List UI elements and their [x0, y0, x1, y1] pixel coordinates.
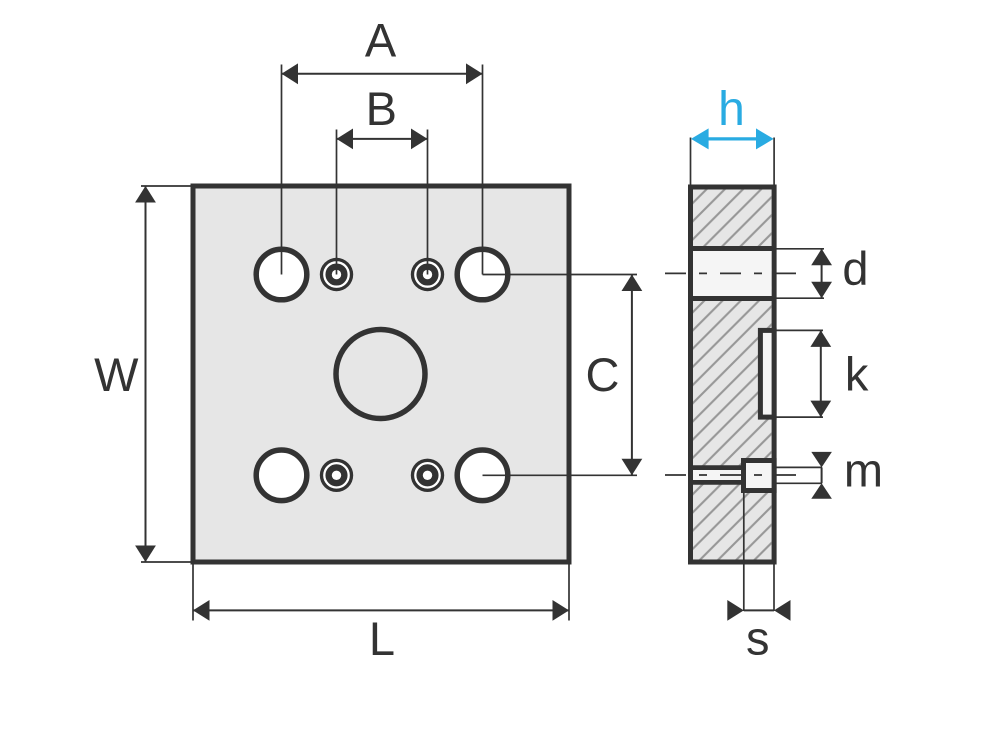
svg-text:k: k [845, 348, 869, 401]
svg-text:W: W [94, 348, 139, 401]
hole bottom-left large [256, 450, 307, 501]
hole top-left small [320, 258, 353, 291]
label m [844, 444, 883, 497]
label s [746, 612, 770, 665]
svg-text:s: s [746, 612, 770, 665]
svg-text:d: d [842, 242, 868, 295]
label k [845, 348, 869, 401]
dimension W extension line bottom [141, 561, 195, 563]
svg-text:C: C [586, 348, 620, 401]
dimension A extension line left [281, 65, 283, 275]
svg-text:h: h [718, 83, 745, 136]
dimension k extension line top [776, 329, 823, 331]
dimension s extension line left [743, 493, 745, 611]
dimension B extension line right [427, 130, 429, 275]
dimension B extension line left [336, 130, 338, 275]
dimension h extension line left [690, 138, 692, 187]
dimension m connector and arrows [811, 452, 832, 499]
centerline of bore band [665, 272, 800, 274]
dimension s extension line right [773, 565, 775, 612]
dimension m extension line bottom [776, 482, 822, 484]
dimension A extension line right [482, 65, 484, 275]
side view body [691, 187, 775, 562]
center bore circle [336, 330, 425, 419]
dimension C line [622, 275, 643, 476]
hole bottom-left small [320, 459, 353, 492]
leader line from bottom-right hole to C [483, 474, 638, 476]
dimension k extension line bottom [776, 416, 823, 418]
svg-text:B: B [366, 82, 397, 135]
hole top-left large [256, 249, 307, 300]
label h [718, 83, 745, 136]
hole bottom-right large [457, 450, 508, 501]
dimension L extension line left [192, 565, 194, 621]
dimension A line [282, 63, 483, 84]
leader line into top-right small hole [427, 258, 429, 275]
front view plate [193, 186, 569, 562]
label L [369, 612, 395, 665]
leader line from top-right hole to C [483, 274, 638, 276]
leader line into top-right large hole [483, 249, 510, 275]
dimension B line [337, 129, 428, 150]
hole top-right small [411, 258, 444, 291]
svg-text:L: L [369, 612, 395, 665]
leader line into bottom-right large hole [483, 474, 510, 476]
label A [365, 13, 397, 66]
dimension m extension line top [776, 466, 822, 468]
thin slot (m) [691, 468, 745, 483]
dimension L line [193, 600, 569, 621]
dimension s line and arrows [727, 600, 790, 621]
label B [366, 82, 397, 135]
svg-text:m: m [844, 444, 883, 497]
label C [586, 348, 620, 401]
hole bottom-right small [411, 459, 444, 492]
dimension L extension line right [568, 565, 570, 621]
hole top-right large [457, 249, 508, 300]
recess pocket at slot [744, 461, 775, 491]
leader line into top-left small hole [336, 258, 338, 275]
dimension W line [135, 186, 156, 562]
bore band (d) [688, 249, 776, 299]
svg-text:A: A [365, 13, 397, 66]
label d [842, 242, 868, 295]
dimension d extension line bottom [776, 297, 824, 299]
dimension k line [810, 330, 831, 417]
leader line into top-left large hole [281, 249, 283, 275]
dimension h double arrow (cyan) [691, 128, 774, 149]
keyway notch (k) [760, 330, 774, 417]
label W [94, 348, 139, 401]
dimension W extension line top [141, 185, 195, 187]
dimension d extension line top [776, 248, 824, 250]
centerline of slot [665, 474, 798, 476]
dimension d line [811, 249, 832, 298]
dimension h extension line right [773, 138, 775, 187]
